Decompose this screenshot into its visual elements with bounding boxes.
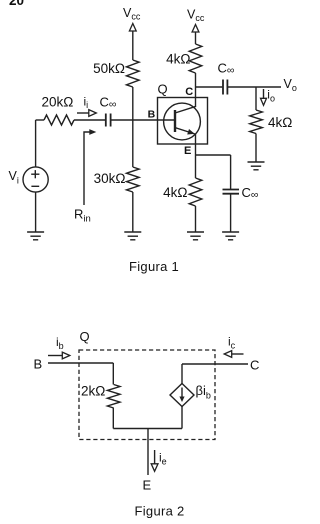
svg-text:Rin: Rin [74, 207, 91, 225]
svg-text:Vo: Vo [284, 77, 297, 93]
svg-text:2kΩ: 2kΩ [81, 384, 105, 399]
svg-text:Q: Q [80, 329, 90, 344]
svg-text:E: E [143, 478, 152, 493]
svg-text:4kΩ: 4kΩ [166, 52, 190, 67]
svg-text:4kΩ: 4kΩ [163, 185, 187, 200]
svg-text:io: io [267, 88, 275, 104]
svg-text:4kΩ: 4kΩ [268, 115, 292, 130]
svg-text:C: C [250, 358, 259, 373]
svg-text:C∞: C∞ [100, 95, 117, 111]
svg-text:50kΩ: 50kΩ [93, 61, 125, 76]
svg-text:B: B [148, 109, 156, 121]
svg-text:Figura 2: Figura 2 [135, 504, 185, 519]
svg-text:ic: ic [228, 335, 236, 351]
svg-text:Figura 1: Figura 1 [129, 259, 179, 274]
svg-text:Vcc: Vcc [123, 6, 141, 22]
svg-text:E: E [184, 145, 191, 157]
svg-text:C∞: C∞ [242, 185, 259, 201]
svg-text:βib: βib [196, 383, 211, 401]
svg-text:20kΩ: 20kΩ [42, 95, 74, 110]
svg-text:ii: ii [84, 95, 89, 111]
svg-text:ib: ib [56, 335, 64, 351]
svg-text:C∞: C∞ [218, 61, 235, 77]
svg-text:ie: ie [159, 451, 167, 467]
svg-text:Q: Q [158, 82, 168, 97]
svg-text:C: C [185, 86, 193, 98]
svg-text:Vi: Vi [9, 169, 19, 186]
svg-text:20: 20 [9, 0, 24, 8]
svg-text:30kΩ: 30kΩ [94, 171, 126, 186]
svg-text:Vcc: Vcc [187, 7, 205, 23]
svg-text:B: B [34, 357, 43, 372]
